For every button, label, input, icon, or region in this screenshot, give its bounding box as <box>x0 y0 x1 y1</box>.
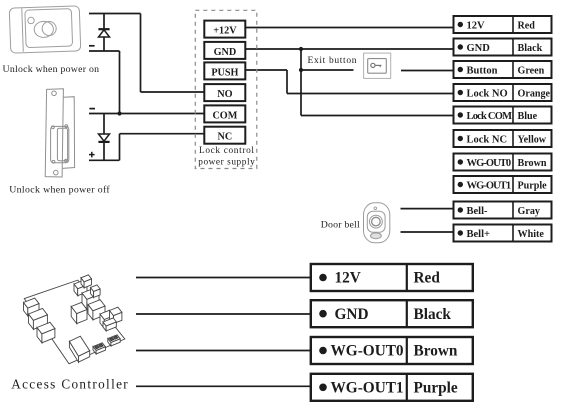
svg-text:Brown: Brown <box>518 158 547 169</box>
svg-text:Lock NO: Lock NO <box>467 88 508 99</box>
svg-text:PUSH: PUSH <box>211 67 238 78</box>
svg-text:Black: Black <box>518 43 543 54</box>
svg-text:WG-OUT0: WG-OUT0 <box>467 158 512 169</box>
svg-text:White: White <box>518 229 545 240</box>
svg-text:Unlock when power on: Unlock when power on <box>3 64 100 75</box>
svg-text:Orange: Orange <box>518 88 551 99</box>
svg-text:Red: Red <box>518 20 536 31</box>
svg-text:Yellow: Yellow <box>518 134 547 145</box>
svg-text:power supply: power supply <box>198 158 255 168</box>
svg-text:Purple: Purple <box>414 380 458 397</box>
svg-text:Access Controller: Access Controller <box>11 377 128 392</box>
svg-text:WG-OUT1: WG-OUT1 <box>467 180 512 191</box>
svg-text:Lock NC: Lock NC <box>467 134 508 145</box>
svg-text:Exit button: Exit button <box>308 56 357 66</box>
svg-text:Black: Black <box>414 306 452 323</box>
svg-text:Bell+: Bell+ <box>467 229 490 240</box>
svg-text:GND: GND <box>335 306 369 323</box>
svg-text:Button: Button <box>467 65 498 76</box>
svg-text:Unlock when power off: Unlock when power off <box>9 185 110 196</box>
svg-text:COM: COM <box>212 110 237 121</box>
svg-text:GND: GND <box>214 47 237 58</box>
svg-text:NO: NO <box>217 89 232 100</box>
svg-text:Lock control: Lock control <box>199 146 254 156</box>
svg-text:Green: Green <box>518 65 545 76</box>
svg-text:WG-OUT1: WG-OUT1 <box>331 380 404 397</box>
svg-text:Red: Red <box>414 270 441 287</box>
svg-text:Brown: Brown <box>414 343 458 360</box>
svg-text:Door bell: Door bell <box>321 219 360 230</box>
svg-text:Gray: Gray <box>518 206 540 217</box>
svg-text:+12V: +12V <box>213 26 237 37</box>
svg-text:Purple: Purple <box>518 180 548 191</box>
svg-text:Lock COM: Lock COM <box>467 111 513 122</box>
svg-text:12V: 12V <box>467 20 486 31</box>
svg-text:GND: GND <box>467 43 491 54</box>
svg-text:Bell-: Bell- <box>467 206 488 217</box>
svg-text:12V: 12V <box>335 270 361 287</box>
svg-text:NC: NC <box>218 132 233 143</box>
svg-text:WG-OUT0: WG-OUT0 <box>331 343 404 360</box>
svg-text:Blue: Blue <box>518 111 538 122</box>
